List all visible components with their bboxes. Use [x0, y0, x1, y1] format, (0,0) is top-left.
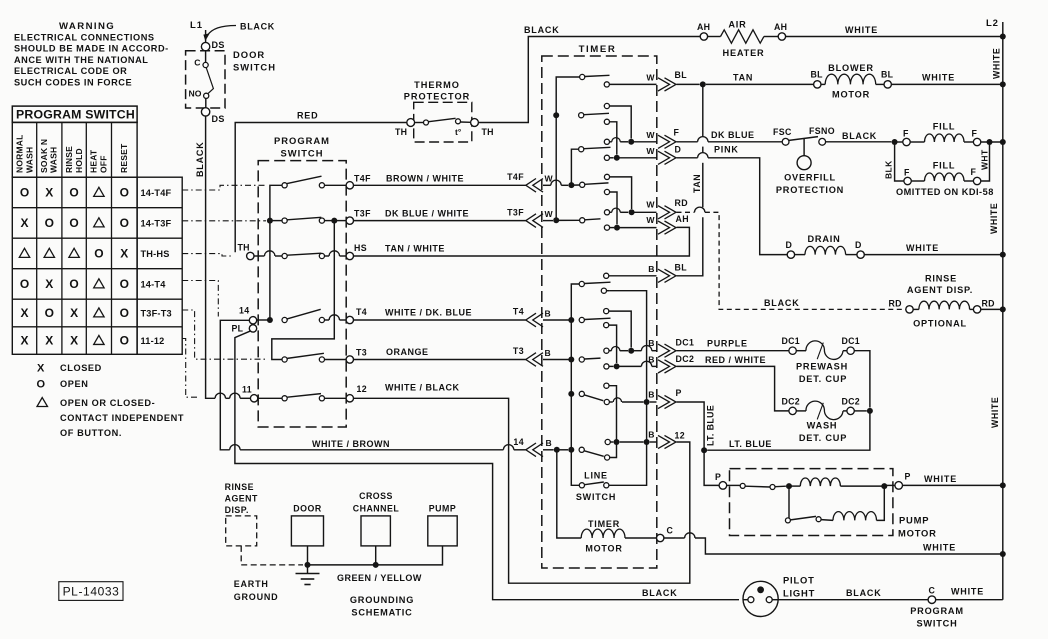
svg-text:RINSE: RINSE [64, 146, 74, 173]
svg-text:OPEN: OPEN [60, 379, 88, 389]
air heater terminal AH left [700, 33, 707, 40]
timer contact 457 [605, 455, 610, 460]
wire PL to pilot light [235, 331, 739, 600]
svg-text:DOOR: DOOR [293, 504, 322, 514]
float actuator link [803, 139, 805, 156]
svg-text:X: X [120, 246, 128, 260]
junction dots on L2 [1000, 34, 1006, 40]
svg-text:DRAIN: DRAIN [807, 234, 840, 244]
connector BL black plug [658, 269, 670, 282]
svg-text:GROUND: GROUND [234, 592, 279, 602]
wire 14 to white-brown run [220, 320, 249, 450]
prewash det cup actuator [796, 350, 806, 352]
switch HS contacts [282, 253, 287, 258]
terminal BL left blower [814, 81, 821, 88]
svg-text:FILL: FILL [933, 122, 956, 132]
svg-text:SWITCH: SWITCH [576, 492, 616, 502]
svg-text:PROGRAM: PROGRAM [274, 135, 330, 146]
svg-text:ELECTRICAL CODE OR: ELECTRICAL CODE OR [14, 66, 127, 76]
svg-text:14: 14 [513, 437, 524, 447]
bus L2 white vertical [1002, 22, 1004, 600]
svg-text:11-12: 11-12 [141, 336, 165, 346]
svg-text:WASH: WASH [49, 147, 59, 173]
svg-text:B: B [546, 438, 552, 448]
svg-text:ORANGE: ORANGE [386, 347, 429, 357]
svg-text:W: W [646, 73, 655, 83]
connector DC1 plug [658, 344, 670, 357]
svg-text:HS: HS [354, 243, 367, 253]
svg-text:T3: T3 [513, 346, 524, 356]
wire BLACK FSNO to fill [826, 141, 892, 143]
svg-text:L1: L1 [190, 20, 203, 31]
timer feed 290 contact [601, 288, 606, 293]
pump aux winding branch [788, 486, 790, 520]
svg-text:BLK: BLK [884, 160, 894, 179]
svg-text:AIR: AIR [728, 20, 746, 30]
svg-text:L2: L2 [986, 18, 999, 29]
svg-text:WHITE: WHITE [990, 397, 1000, 428]
svg-text:LIGHT: LIGHT [783, 588, 815, 599]
svg-text:DK BLUE / WHITE: DK BLUE / WHITE [385, 209, 469, 219]
timer out 12 black [605, 439, 610, 444]
timer out DC1 black [604, 348, 609, 353]
svg-text:T4: T4 [356, 307, 367, 317]
timer out BL white [604, 82, 609, 87]
wire BLACK door switch down to terminal I1 [206, 116, 216, 398]
svg-text:12: 12 [357, 384, 368, 394]
svg-text:SUCH CODES IN FORCE: SUCH CODES IN FORCE [14, 77, 132, 87]
terminal TH right [471, 119, 479, 127]
svg-text:O: O [45, 216, 54, 230]
thermo blade t-degree [429, 118, 456, 121]
door ground box [291, 516, 323, 546]
svg-text:RD: RD [889, 299, 902, 309]
wire DS to C [205, 51, 207, 63]
timer out DC2 black [604, 364, 609, 369]
svg-text:TH: TH [238, 243, 250, 253]
svg-text:X: X [45, 277, 53, 291]
svg-text:D: D [675, 145, 682, 155]
svg-text:F: F [972, 129, 978, 139]
terminal TH left [407, 119, 415, 127]
program switch dashed box [258, 161, 346, 427]
terminal DC2 left [789, 407, 796, 414]
wire TAN to blower [706, 83, 814, 85]
svg-text:OVERFILL: OVERFILL [784, 173, 836, 183]
timer B row 284 fixed contact [579, 281, 584, 286]
legend contact symbols [37, 363, 185, 439]
timer out P black [604, 399, 609, 404]
svg-text:AGENT: AGENT [225, 494, 258, 504]
wire WHITE heater to L2 [786, 36, 1003, 38]
svg-text:AH: AH [774, 22, 787, 32]
timer W row 185 input [543, 184, 551, 186]
thermo protector box [414, 102, 472, 142]
wire LT BLUE det cups to bus [707, 411, 870, 450]
svg-text:GROUNDING: GROUNDING [350, 595, 414, 605]
svg-text:C: C [929, 586, 936, 596]
timer W row 220 input [543, 220, 553, 222]
fill valve coil 2 branch [895, 142, 904, 181]
timer dashed box [542, 56, 657, 568]
terminal RD left [906, 306, 913, 313]
connector 12 plug [658, 435, 670, 448]
door switch blade [206, 68, 213, 94]
svg-text:CONTACT INDEPENDENT: CONTACT INDEPENDENT [60, 413, 184, 423]
svg-text:T3F-T3: T3F-T3 [141, 308, 172, 318]
wire BLACK pilot to program switch C [778, 599, 928, 601]
svg-text:HEATER: HEATER [723, 48, 765, 58]
wire DC1 loop to junction [854, 351, 870, 408]
svg-text:PURPLE: PURPLE [707, 339, 748, 349]
svg-text:O: O [45, 306, 54, 320]
timer bus B1 vertical [571, 284, 582, 485]
svg-text:X: X [70, 306, 78, 320]
svg-text:T3F: T3F [354, 209, 371, 219]
svg-text:BLACK: BLACK [842, 131, 877, 141]
svg-text:WARNING: WARNING [59, 21, 115, 32]
svg-text:B: B [648, 430, 654, 440]
svg-text:RESET: RESET [119, 143, 129, 173]
junction dot wash cup [867, 408, 873, 414]
svg-text:CHANNEL: CHANNEL [353, 504, 400, 514]
svg-text:12: 12 [675, 431, 686, 441]
svg-text:BL: BL [811, 70, 824, 80]
terminal DC1 right [847, 347, 854, 354]
svg-text:TIMER: TIMER [579, 44, 617, 55]
svg-text:F: F [674, 128, 680, 138]
wire BLACK thermo to air heater [478, 37, 699, 123]
svg-text:C: C [194, 58, 200, 68]
wire PURPLE DC1 to prewash cup [677, 350, 789, 352]
svg-text:MOTOR: MOTOR [898, 528, 937, 539]
bus program switch right vertical [324, 220, 334, 222]
linkage table row1 to T4F switch [182, 185, 266, 190]
svg-text:DK BLUE: DK BLUE [711, 130, 755, 140]
svg-text:B: B [648, 390, 654, 400]
svg-text:FSNO: FSNO [809, 126, 835, 136]
svg-text:P: P [715, 472, 721, 482]
wash det cup actuator [796, 410, 806, 412]
fill valve coil 1 [895, 141, 903, 143]
timer bus B2 vertical to line switch right [607, 290, 610, 292]
svg-text:CLOSED: CLOSED [60, 363, 102, 373]
connector BL white plug [658, 78, 670, 91]
svg-text:WHITE / DK. BLUE: WHITE / DK. BLUE [385, 308, 472, 318]
svg-text:OPEN OR CLOSED-: OPEN OR CLOSED- [60, 398, 155, 408]
switch T3F contacts [282, 218, 287, 223]
svg-text:O: O [37, 379, 46, 391]
svg-text:O: O [69, 185, 78, 199]
svg-text:MOTOR: MOTOR [585, 544, 622, 554]
svg-text:X: X [45, 334, 53, 348]
linkage table row2 to T3F switch [182, 220, 266, 222]
line switch contacts [579, 483, 584, 488]
svg-text:B: B [545, 348, 551, 358]
svg-text:W: W [646, 146, 655, 156]
svg-text:DS: DS [212, 40, 225, 50]
timer B row 394 fixed contact [579, 391, 584, 396]
svg-text:SHOULD BE MADE IN ACCORD-: SHOULD BE MADE IN ACCORD- [14, 44, 169, 54]
air heater terminal AH right [778, 33, 785, 40]
svg-text:OPTIONAL: OPTIONAL [913, 319, 967, 329]
svg-text:ANCE WITH THE NATIONAL: ANCE WITH THE NATIONAL [14, 55, 148, 65]
svg-text:PUMP: PUMP [899, 515, 929, 526]
connector T4F plug [526, 179, 536, 193]
wire P connector via LT BLUE bus to pump [677, 402, 720, 485]
switch T4 contacts [282, 317, 287, 322]
svg-text:DS: DS [212, 114, 225, 124]
svg-text:O: O [94, 246, 103, 260]
svg-text:RD: RD [982, 299, 995, 309]
svg-text:B: B [648, 338, 654, 348]
timer B row 450 input fixed contact [543, 449, 554, 451]
svg-text:X: X [70, 334, 78, 348]
terminal D left drain [787, 251, 794, 258]
svg-text:BL: BL [881, 70, 894, 80]
svg-text:D: D [786, 240, 792, 250]
pump contact set [727, 484, 740, 486]
terminal DC1 left [789, 347, 796, 354]
terminal DC2 right [847, 407, 854, 414]
svg-text:T3: T3 [356, 348, 367, 358]
timer W row 149 fixed contact [579, 147, 584, 152]
svg-text:PL: PL [232, 324, 244, 334]
svg-text:DC2: DC2 [782, 397, 801, 407]
float ball overfill [797, 156, 811, 170]
svg-text:RED: RED [297, 111, 318, 121]
terminal P right pump [884, 484, 895, 486]
wire DK BLUE from F connector [677, 141, 698, 143]
terminal D right drain [857, 251, 864, 258]
svg-text:TH: TH [395, 127, 407, 137]
svg-text:O: O [69, 216, 78, 230]
wire T4 white/dk blue [354, 319, 526, 321]
junction dot TAN bus top [700, 81, 706, 87]
timer out BL black [604, 273, 609, 278]
svg-text:PREWASH: PREWASH [796, 362, 848, 372]
svg-text:F: F [971, 167, 977, 177]
svg-text:O: O [120, 277, 129, 291]
float switch blade [789, 137, 818, 141]
timer feed 385 to 12 bus [604, 383, 609, 388]
svg-text:X: X [20, 216, 28, 230]
wire PINK from D connector to drain [677, 157, 698, 159]
pilot light lamp [743, 581, 778, 616]
connector AH plug [658, 221, 670, 234]
terminal I2 [346, 395, 353, 402]
thermo contact left [415, 122, 424, 124]
ground bus green/yellow [308, 546, 443, 565]
wire WHITE C to L2 [936, 599, 1003, 601]
wire T3F dk blue/white [354, 220, 526, 222]
terminal HS [346, 252, 353, 259]
svg-text:OMITTED ON KDI-58: OMITTED ON KDI-58 [896, 187, 994, 197]
svg-text:LT. BLUE: LT. BLUE [729, 439, 772, 449]
svg-text:RD: RD [675, 198, 689, 208]
svg-text:PILOT: PILOT [783, 575, 815, 586]
svg-text:BLACK: BLACK [195, 142, 205, 178]
svg-text:B: B [648, 355, 654, 365]
wire cross channel stem [375, 546, 377, 565]
timer B row 359 fixed contact [579, 357, 584, 362]
junction dot lt blue [701, 447, 707, 453]
svg-text:11: 11 [242, 385, 252, 395]
connector F plug [658, 135, 670, 148]
linkage table row6 to I1 switch [182, 339, 200, 398]
terminal TH program switch [247, 252, 254, 259]
timer motor coil [557, 450, 581, 538]
wire NO to DS [205, 98, 207, 107]
svg-text:F: F [903, 129, 909, 139]
svg-text:RED / WHITE: RED / WHITE [705, 355, 766, 365]
svg-text:DC1: DC1 [782, 336, 801, 346]
svg-text:GREEN / YELLOW: GREEN / YELLOW [337, 573, 422, 583]
door switch box [186, 51, 225, 108]
timer W row 115 fixed contact [579, 113, 584, 118]
svg-text:WHITE / BROWN: WHITE / BROWN [312, 439, 390, 449]
svg-text:SWITCH: SWITCH [233, 62, 276, 73]
svg-text:SWITCH: SWITCH [281, 148, 324, 159]
wire RED from junction to thermo protector [235, 123, 407, 253]
timer out AH white [604, 225, 609, 230]
svg-text:WHITE: WHITE [989, 203, 999, 234]
svg-text:X: X [20, 334, 28, 348]
terminal 14 [249, 317, 256, 324]
svg-text:X: X [45, 185, 53, 199]
svg-text:BL: BL [675, 263, 688, 273]
wire I2 white/black to timer 12 [354, 398, 690, 583]
svg-text:PROGRAM SWITCH: PROGRAM SWITCH [16, 108, 135, 122]
svg-text:TIMER: TIMER [588, 519, 620, 529]
terminal BL right blower [884, 81, 891, 88]
svg-text:DC2: DC2 [676, 354, 695, 364]
svg-text:BLACK: BLACK [642, 588, 678, 598]
timer feed 177 to RD [604, 174, 609, 179]
timer bus W1 vertical [556, 77, 582, 220]
svg-text:DOOR: DOOR [233, 49, 265, 60]
svg-text:LINE: LINE [584, 471, 608, 481]
connector DC2 plug [658, 360, 670, 373]
switch T3 contacts [282, 357, 287, 362]
svg-text:PL-14033: PL-14033 [63, 585, 120, 599]
rinse agent disp ground box [226, 516, 257, 546]
svg-text:BLOWER: BLOWER [828, 63, 874, 73]
earth ground symbol [307, 565, 309, 573]
svg-text:BLACK: BLACK [240, 22, 275, 32]
wire T4F brown/white [354, 184, 526, 186]
svg-text:O: O [120, 334, 129, 348]
bus TAN vertical [702, 84, 704, 137]
svg-text:BL: BL [675, 70, 688, 80]
svg-text:NO: NO [189, 89, 202, 99]
svg-text:F: F [904, 168, 910, 178]
svg-text:SCHEMATIC: SCHEMATIC [351, 608, 412, 618]
svg-text:WHITE: WHITE [922, 73, 955, 83]
timer feed 106 to F [604, 103, 609, 108]
terminal T4 [346, 316, 353, 323]
svg-text:W: W [646, 215, 655, 225]
svg-text:WASH: WASH [807, 421, 838, 431]
svg-text:T4F: T4F [354, 174, 371, 184]
terminal DS lower [201, 108, 209, 116]
svg-text:BLACK: BLACK [846, 588, 882, 598]
linkage table row5 to T3 switch [182, 310, 267, 359]
svg-text:14-T4F: 14-T4F [141, 188, 172, 198]
svg-text:DC1: DC1 [676, 338, 695, 348]
svg-text:SWITCH: SWITCH [916, 619, 957, 629]
junction dot pump main [786, 483, 792, 489]
svg-text:TAN: TAN [733, 73, 753, 83]
terminal T3 [346, 356, 353, 363]
wire RD to L2 [981, 308, 1003, 310]
svg-text:B: B [545, 309, 551, 319]
svg-text:FSC: FSC [773, 127, 792, 137]
timer feed 192 to AH [604, 189, 609, 194]
switch I1-I2 contacts [282, 396, 287, 401]
wire WHITE pump to L2 [903, 484, 1003, 486]
svg-text:T4F: T4F [507, 172, 524, 182]
svg-text:PUMP: PUMP [429, 504, 456, 514]
svg-text:HEAT: HEAT [89, 149, 99, 173]
terminal T4F [346, 182, 353, 189]
svg-text:TH-HS: TH-HS [141, 249, 170, 259]
svg-text:THERMO: THERMO [414, 80, 460, 90]
connector D plug [658, 151, 670, 164]
svg-text:PROGRAM: PROGRAM [910, 606, 964, 616]
svg-text:P: P [676, 388, 682, 398]
svg-text:FILL: FILL [933, 161, 956, 171]
svg-text:CROSS: CROSS [359, 491, 393, 501]
svg-text:WHITE: WHITE [845, 25, 878, 35]
svg-text:WHITE: WHITE [923, 543, 956, 553]
wire to TH right [461, 121, 471, 123]
timer feed 325 to DC2 [604, 323, 609, 328]
svg-text:C: C [667, 526, 674, 536]
wire HS tan/white to AH connector [354, 227, 690, 256]
svg-text:AH: AH [697, 22, 710, 32]
wire WHITE drain to L2 [865, 254, 1003, 256]
timer feed 122 to D [604, 119, 609, 124]
svg-text:PROTECTOR: PROTECTOR [404, 92, 471, 102]
connector RD plug [658, 206, 670, 219]
terminal T3F [346, 217, 353, 224]
svg-text:t°: t° [455, 127, 462, 137]
svg-text:D: D [855, 240, 861, 250]
connector 14 plug [526, 443, 536, 457]
bus program switch left vertical [270, 185, 282, 320]
connector T4 plug [526, 313, 536, 327]
svg-text:TAN / WHITE: TAN / WHITE [385, 244, 445, 254]
svg-text:LT. BLUE: LT. BLUE [706, 405, 716, 446]
svg-text:WHITE: WHITE [951, 587, 984, 597]
wire white BL connector to blower junction [677, 83, 700, 85]
terminal I1 [250, 395, 257, 402]
svg-text:BROWN / WHITE: BROWN / WHITE [386, 174, 464, 184]
timer B row 320 fixed contact [579, 317, 584, 322]
svg-text:MOTOR: MOTOR [832, 90, 870, 100]
float switch FSC [782, 138, 789, 145]
linkage table row4 to 14 terminal [182, 281, 218, 317]
svg-text:O: O [120, 216, 129, 230]
cross channel ground box [361, 516, 390, 546]
leader line to BLACK label [207, 26, 236, 36]
svg-text:X: X [20, 306, 28, 320]
terminal C program switch [928, 596, 936, 604]
svg-text:O: O [120, 306, 129, 320]
svg-text:W: W [646, 200, 655, 210]
svg-text:WHITE: WHITE [992, 48, 1002, 79]
